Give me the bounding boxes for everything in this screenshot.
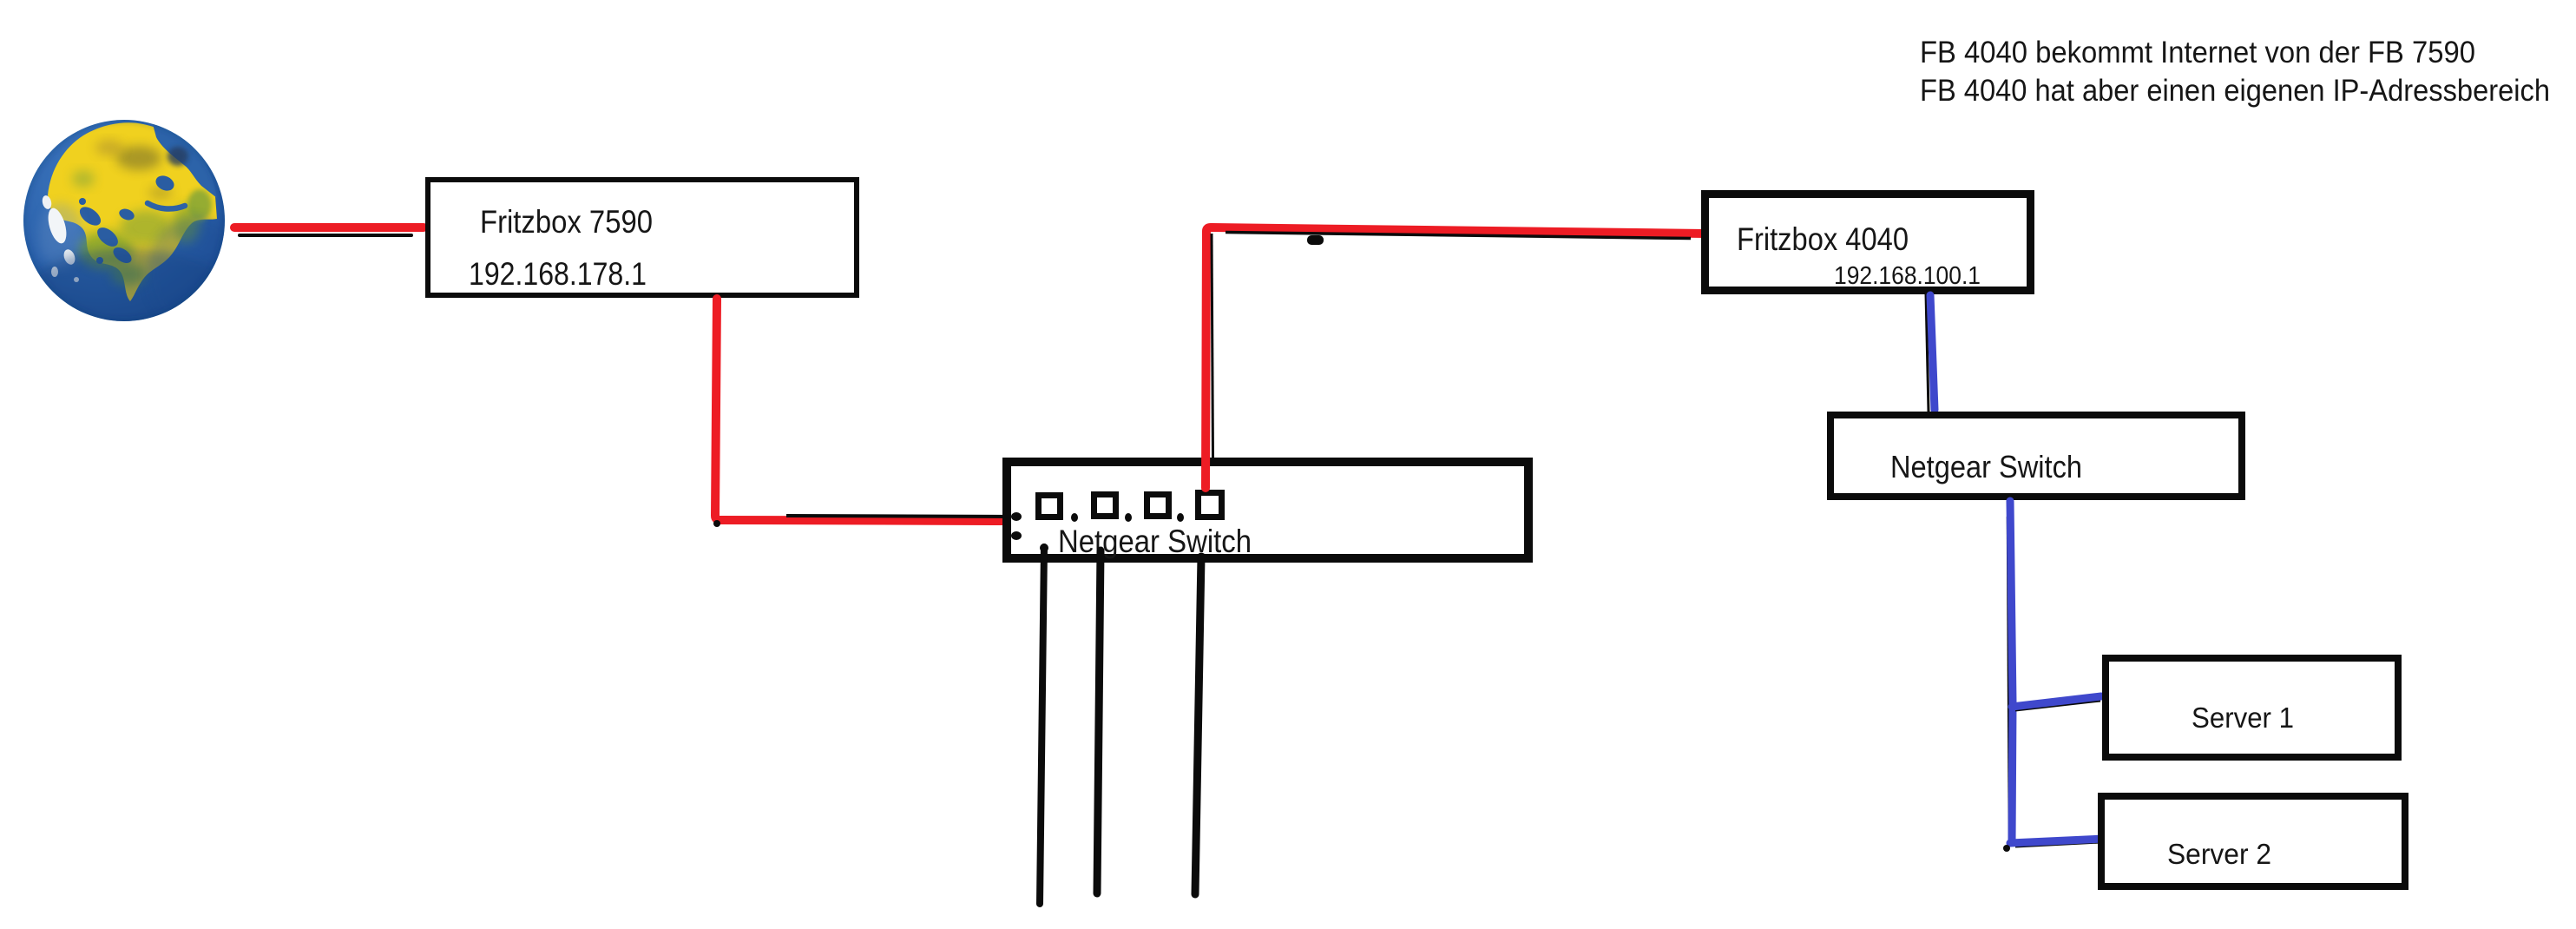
- top right ocean corner: [153, 124, 217, 198]
- white ice patches left: [45, 206, 70, 245]
- sickle channel: [148, 203, 185, 209]
- junction dot at Fritzbox4040 entry: [1705, 230, 1714, 239]
- wire blue Fritzbox4040 to right switch: [1930, 295, 1935, 410]
- svg-text:Netgear Switch: Netgear Switch: [1890, 449, 2082, 484]
- port 1: [1039, 496, 1061, 517]
- dark olive smudges top: [116, 146, 161, 170]
- wire black drop A from central switch: [1040, 547, 1044, 904]
- wire blue branch to Server2: [2010, 839, 2104, 843]
- junction dot end of black wire: [1011, 512, 1022, 521]
- wire black beside blue Fritzbox4040 drop: [1926, 293, 1929, 412]
- device Server 2 box: [2101, 796, 2405, 886]
- wire black under horizontal segment: [786, 516, 1011, 517]
- junction dot below: [1011, 531, 1022, 540]
- wire red Fritzbox7590 to central switch: [715, 299, 1009, 521]
- svg-text:Server 2: Server 2: [2167, 838, 2271, 870]
- wire blue branch to Server1: [2012, 696, 2101, 707]
- globe internet: [20, 120, 243, 356]
- wire black under branch to Server2: [2015, 842, 2100, 847]
- note line 1: [1920, 36, 2475, 69]
- label 192.168.100.1: [1834, 262, 1981, 290]
- wire black under red horizontal: [1226, 233, 1691, 239]
- port 4: [1199, 493, 1222, 517]
- svg-text:Netgear Switch: Netgear Switch: [1058, 524, 1252, 559]
- device right Netgear Switch box: [1830, 415, 2242, 497]
- port mark b: [1125, 513, 1132, 522]
- port 3: [1147, 495, 1169, 517]
- fjord inlets: [76, 203, 104, 229]
- junction dot top of drop A: [1040, 544, 1048, 552]
- svg-text:Fritzbox 4040: Fritzbox 4040: [1737, 221, 1909, 257]
- wire black beside red vertical: [1212, 234, 1213, 458]
- svg-text:192.168.100.1: 192.168.100.1: [1834, 262, 1981, 290]
- green mottling on land: [78, 231, 134, 269]
- junction dot top of drop C: [1198, 553, 1206, 562]
- port mark c: [1177, 513, 1184, 522]
- wire black drop C from central switch: [1195, 557, 1201, 894]
- svg-text:FB 4040 hat aber einen eigenen: FB 4040 hat aber einen eigenen IP-Adress…: [1920, 74, 2550, 108]
- junction dot bottom of trunk: [2003, 845, 2010, 852]
- wire black beside blue trunk: [2008, 517, 2009, 840]
- caspian-like inlet: [154, 173, 177, 194]
- device Fritzbox 4040 box: [1705, 194, 2031, 291]
- svg-text:FB 4040 bekommt Internet von d: FB 4040 bekommt Internet von der FB 7590: [1920, 36, 2475, 69]
- wire blue trunk right switch down: [2010, 501, 2013, 842]
- wire black under branch to Server1: [2015, 701, 2100, 710]
- device central Netgear Switch box: [1007, 462, 1528, 558]
- bottom shading: [20, 248, 237, 356]
- note line 2: [1920, 74, 2550, 108]
- label Fritzbox 4040: [1737, 221, 1909, 257]
- wire red central switch to Fritzbox4040: [1206, 227, 1705, 488]
- svg-text:192.168.178.1: 192.168.178.1: [469, 256, 647, 292]
- wire black drop B from central switch: [1097, 550, 1101, 893]
- wire black under internet wire: [240, 234, 411, 237]
- wire red internet to Fritzbox7590: [234, 223, 424, 232]
- port 2: [1094, 495, 1116, 517]
- label central Netgear Switch: [1058, 524, 1252, 559]
- label Server 2: [2167, 838, 2271, 870]
- label Server 1: [2192, 702, 2294, 734]
- label right Netgear Switch: [1890, 449, 2082, 484]
- device Fritzbox 7590 box: [428, 180, 857, 295]
- junction dot at wire corner: [713, 520, 720, 527]
- svg-text:Fritzbox 7590: Fritzbox 7590: [480, 204, 653, 240]
- device Server 1 box: [2106, 658, 2398, 757]
- big yellow landmass: [48, 122, 217, 301]
- dark navy blob top right: [168, 147, 188, 166]
- lighter band lower-left: [38, 203, 83, 269]
- svg-text:Server 1: Server 1: [2192, 702, 2294, 734]
- label 192.168.178.1: [469, 256, 647, 292]
- label Fritzbox 7590: [480, 204, 653, 240]
- port mark a: [1071, 513, 1078, 522]
- black blob under red wire: [1307, 235, 1324, 245]
